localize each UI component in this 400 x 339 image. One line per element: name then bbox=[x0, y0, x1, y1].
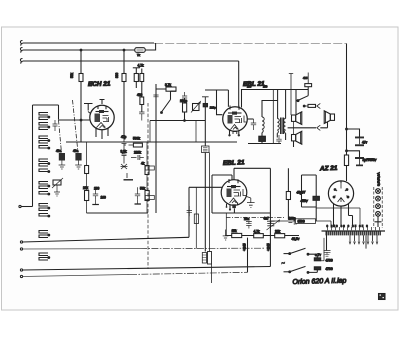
ground G9 bbox=[325, 252, 330, 256]
connector CN2 hatched bbox=[202, 253, 206, 264]
capacitor C2 pair bbox=[53, 120, 58, 131]
capacitor C17 bbox=[187, 206, 192, 216]
capacitor C11 bbox=[251, 119, 256, 130]
resistor R15 bbox=[344, 155, 348, 166]
wire caps mid to transformer bbox=[321, 238, 324, 261]
output transformer T1 core bbox=[281, 118, 284, 135]
mains switch SW3a bbox=[289, 253, 291, 255]
wire CN2 tail bbox=[211, 264, 213, 283]
svg-text:0 250 63 0 85 05 0: 0 250 63 0 85 05 0 bbox=[327, 224, 369, 228]
tube AZ21 envelope bbox=[328, 181, 353, 206]
wire R1 down to ECH21 region bbox=[80, 82, 82, 104]
speaker SP3 magnet bbox=[292, 135, 296, 141]
bottom terminal T4 bbox=[20, 275, 22, 277]
power transformer T2 winding comb bbox=[326, 232, 380, 236]
resistor 6500 box bbox=[296, 219, 316, 224]
gang trimmer blob 1 bbox=[59, 153, 65, 161]
wire R12 up bbox=[184, 98, 186, 121]
wire bottom bus B3 bbox=[23, 267, 271, 271]
wire drop to R1 bbox=[80, 50, 82, 74]
capacitor C9 bbox=[182, 92, 187, 98]
resistor R23 bbox=[275, 234, 285, 238]
coil L5a bbox=[39, 204, 48, 211]
wire x196b vertical bbox=[195, 187, 197, 248]
transformer left lead down bbox=[326, 231, 328, 251]
wire switch bottom to caps bbox=[308, 270, 317, 273]
wire x205 vertical bbox=[204, 121, 206, 252]
transformer long pins with arrows bbox=[349, 235, 378, 248]
svg-text:10n: 10n bbox=[244, 217, 250, 221]
svg-text:100p: 100p bbox=[180, 99, 187, 103]
capacitor C18 bbox=[246, 222, 252, 229]
svg-text:3,3k: 3,3k bbox=[121, 150, 127, 154]
wire bottom bus B4 (dash) bbox=[23, 275, 131, 277]
potentiometer wiper P1 bbox=[121, 159, 128, 170]
ground G1 bbox=[54, 185, 60, 196]
tube EBL21a pins bottom bbox=[230, 130, 239, 134]
electrolytic blob C12 bbox=[259, 136, 266, 141]
gang link dash left bbox=[59, 120, 62, 153]
wire arm to terminal bbox=[21, 206, 33, 208]
wire speaker column bbox=[289, 74, 293, 116]
svg-text:40µF/: 40µF/ bbox=[297, 191, 307, 195]
wire R19 vertical bbox=[287, 168, 289, 219]
gang trimmer blob 2 bbox=[75, 153, 81, 161]
resistor R11 (3,7k) bbox=[166, 87, 176, 91]
wire SP1-SP3 link bbox=[293, 121, 295, 134]
lamp rail dashed left bbox=[373, 187, 375, 228]
tube EBL21b envelope bbox=[221, 180, 247, 206]
coil L3b bbox=[39, 169, 48, 172]
wire +245 drop left bbox=[247, 238, 249, 273]
trimmer CT2 bbox=[193, 104, 200, 111]
svg-text:40a: 40a bbox=[73, 149, 79, 153]
resistor R7 bbox=[145, 191, 149, 201]
bottom terminal T1 bbox=[20, 241, 22, 243]
svg-text:250: 250 bbox=[263, 84, 268, 88]
tube EBL21a envelope bbox=[223, 107, 248, 132]
coil L2b bbox=[39, 146, 48, 149]
resistor R4 bbox=[133, 143, 142, 147]
resistor R20 bbox=[194, 214, 198, 224]
wire C1 to R3 bbox=[135, 68, 137, 88]
wire R14 up bbox=[307, 73, 309, 84]
wire SP3 down bbox=[293, 141, 295, 147]
svg-text:40a: 40a bbox=[56, 149, 62, 153]
capacitor C13 bbox=[276, 135, 281, 144]
mixer cap C3 bbox=[122, 139, 127, 147]
power transformer T2 bar bbox=[322, 230, 386, 232]
filter cap branch 2 bbox=[347, 151, 360, 157]
fuse F1 bbox=[135, 48, 145, 53]
junction dot x81 bbox=[80, 49, 82, 51]
mixer cap C4 bbox=[122, 147, 127, 159]
wire R11 left bbox=[156, 84, 166, 213]
wire bottom bus B1 bbox=[23, 237, 190, 242]
wire x184 junction bbox=[184, 120, 186, 122]
mains switch SW3b bbox=[289, 271, 291, 273]
shield box left bbox=[211, 175, 213, 213]
page mark glyph bbox=[379, 294, 386, 300]
wire fuse to L1 step bbox=[145, 43, 155, 50]
bottom terminal T2 bbox=[20, 248, 22, 250]
svg-text:495: 495 bbox=[303, 76, 308, 80]
svg-text:8µF/450v: 8µF/450v bbox=[363, 158, 377, 162]
tube EBL21a top bar bbox=[228, 112, 242, 114]
wire bus L1 continuation bbox=[154, 43, 347, 45]
svg-text:+245: +245 bbox=[242, 243, 246, 251]
svg-text:50k: 50k bbox=[70, 72, 74, 78]
wire switch top to caps bbox=[308, 254, 317, 258]
wire B+ drop from L1 bbox=[346, 44, 348, 130]
shield box top to grid bbox=[212, 175, 232, 180]
IF2 coil winding bbox=[262, 117, 264, 133]
svg-text:6,3V/0,3A: 6,3V/0,3A bbox=[376, 171, 380, 186]
wire x316 vertical bbox=[315, 175, 317, 221]
bottom terminal T3 bbox=[20, 269, 22, 271]
svg-text:22k: 22k bbox=[275, 229, 281, 233]
left coil bank bracket top bbox=[33, 104, 59, 106]
capacitor C16 plates bbox=[355, 157, 364, 159]
tube ECH21 top bar bbox=[96, 111, 109, 113]
padder trimmer CT1 bbox=[53, 180, 61, 185]
tube EBL21b filament bbox=[230, 198, 238, 203]
resistor R6 bbox=[145, 166, 149, 175]
speaker field rect bbox=[302, 175, 317, 207]
speaker SP3 cone bbox=[296, 131, 302, 144]
lamp LP3 bbox=[376, 204, 381, 209]
svg-text:Orion 620 A II.lap: Orion 620 A II.lap bbox=[292, 278, 346, 286]
capacitor C1 top plate bbox=[133, 67, 140, 69]
shield box bottom bbox=[212, 212, 270, 214]
capacitor C10 black bbox=[203, 104, 207, 107]
svg-text:160: 160 bbox=[101, 196, 107, 200]
svg-text:300: 300 bbox=[115, 72, 119, 78]
ground G2 bar bbox=[124, 179, 134, 181]
left coil bank vertical bbox=[32, 105, 34, 207]
ground bar under C5 bbox=[135, 203, 141, 205]
wire chain rail bbox=[226, 235, 300, 237]
speaker SP2 magnet bbox=[330, 114, 334, 120]
wire R15 to tube bbox=[346, 166, 348, 182]
resistor R8 bbox=[85, 191, 89, 201]
wire bus L2 bbox=[23, 49, 135, 51]
left coil bank right vertical bbox=[58, 105, 60, 120]
wire drop L3 to EBL21 grid bbox=[238, 61, 240, 107]
transformer tap ticks bbox=[328, 227, 380, 230]
capacitor C6 bbox=[93, 191, 98, 200]
wire diode pair line bbox=[209, 153, 211, 252]
antenna terminal 2 bbox=[20, 48, 22, 53]
capacitor C20 bbox=[288, 220, 299, 224]
jack arrow A2 bbox=[317, 125, 321, 130]
tube AZ21 plates bbox=[333, 183, 349, 202]
line cap CL2 bbox=[314, 267, 320, 270]
coil L4b bbox=[39, 192, 48, 195]
filter cap branch 1 bbox=[347, 129, 360, 137]
coil L2a bbox=[39, 136, 48, 143]
tube AZ21 pins down bbox=[334, 204, 353, 228]
tube EBL21b electrode blob bbox=[227, 189, 232, 198]
resistor R19 bbox=[286, 192, 290, 200]
wire x137 stub bbox=[137, 187, 139, 204]
tube EBL21a electrodes right bbox=[235, 116, 248, 124]
gang link dash mid bbox=[73, 100, 79, 153]
svg-text:450v: 450v bbox=[301, 199, 309, 203]
antenna terminal 3 bbox=[20, 59, 22, 64]
wire IF1 to tube pin bbox=[227, 90, 229, 107]
tube ECH21 envelope bbox=[90, 105, 114, 129]
lamp LP1 bbox=[376, 189, 381, 194]
capacitor C4b bbox=[131, 155, 144, 160]
svg-text:100p: 100p bbox=[289, 217, 296, 221]
svg-text:4700: 4700 bbox=[326, 267, 333, 271]
svg-text:AZ 21: AZ 21 bbox=[319, 165, 338, 173]
wire C10 down bbox=[204, 107, 206, 121]
svg-text:4,7k: 4,7k bbox=[254, 229, 260, 233]
tube ECH21 pins bottom bbox=[96, 128, 108, 139]
antenna coil Lb on bus bbox=[39, 253, 48, 260]
resistor R14 bbox=[305, 84, 312, 87]
wire x81 down to cathode bus bbox=[80, 103, 82, 142]
terminal lug bbox=[19, 205, 21, 207]
capacitor C19 tone bbox=[267, 221, 275, 228]
connector box J1 bbox=[308, 104, 316, 107]
resistor R10 bbox=[140, 97, 144, 105]
speaker SP2 cone bbox=[324, 111, 330, 124]
speaker SP1 magnet bbox=[292, 115, 296, 121]
coil L4a bbox=[39, 182, 48, 189]
wire small rail y187 bbox=[189, 186, 222, 188]
wire detector rail bbox=[248, 143, 281, 145]
resistor R9 bbox=[140, 74, 144, 82]
svg-text:50k: 50k bbox=[140, 187, 146, 191]
coil L3a bbox=[39, 159, 48, 166]
output transformer T1 left winding bbox=[277, 119, 279, 134]
connector small CN1 bbox=[202, 146, 210, 153]
tube ECH21 grid pin left bbox=[88, 112, 91, 114]
svg-text:4700: 4700 bbox=[326, 259, 333, 263]
svg-text:500k: 500k bbox=[133, 137, 140, 141]
coil L5b bbox=[39, 214, 48, 217]
wire 6500 rail bbox=[270, 221, 331, 228]
wire coil to blob bbox=[261, 133, 263, 137]
lamp tee bbox=[375, 216, 382, 227]
antenna coil La on bus bbox=[39, 231, 48, 238]
wire primary bottom bbox=[277, 133, 285, 140]
tube EBL21b top wire bbox=[234, 168, 270, 180]
wire R14 to switch bbox=[307, 87, 309, 96]
connector CN2 shell bbox=[208, 252, 212, 265]
wire osc x141 drop bbox=[141, 69, 143, 74]
line cap CL1 bbox=[314, 258, 320, 261]
resistor R12 bbox=[183, 103, 187, 112]
wire R9-R10 bbox=[141, 82, 143, 113]
tube EBL21a electrode blob bbox=[228, 115, 233, 124]
wire x196 stub bbox=[195, 121, 197, 143]
svg-text:20k: 20k bbox=[83, 186, 89, 190]
tube EBL21b pins bottom bbox=[227, 203, 238, 209]
wire bottom bus B2 (dash) bbox=[23, 248, 141, 250]
resistor R17 bbox=[145, 166, 154, 170]
antenna terminal 1 bbox=[20, 41, 22, 46]
svg-text:+245: +245 bbox=[266, 243, 270, 251]
oscillator switch SW1 bbox=[162, 91, 177, 112]
tube EBL21b electrodes right bbox=[234, 189, 247, 197]
wire x226 vertical bbox=[225, 213, 227, 236]
electrolytic C21 blob bbox=[313, 196, 319, 200]
svg-text:47v: 47v bbox=[362, 141, 368, 145]
capacitor C22 bbox=[324, 251, 331, 253]
lamp LP2 bbox=[376, 196, 381, 201]
ground G7 bbox=[247, 197, 255, 208]
output transformer T1 right winding bbox=[284, 119, 286, 134]
wire x189 vertical bbox=[188, 187, 190, 237]
wire R2 down mixer column bbox=[123, 82, 125, 140]
tube EBL21a filament bbox=[231, 125, 239, 130]
resistor R8a bbox=[85, 166, 89, 174]
resistor R2 bbox=[122, 74, 126, 82]
resistor R1 bbox=[79, 74, 83, 82]
wire coil top bbox=[262, 101, 278, 118]
AVC dashed line bbox=[147, 103, 149, 269]
wire B+ to primary bbox=[285, 90, 287, 119]
wire drop to R2 bbox=[123, 50, 125, 74]
coil L1a bbox=[39, 113, 48, 120]
resistor R3 body bbox=[134, 74, 138, 82]
svg-text:220p: 220p bbox=[210, 106, 216, 110]
wire bus L3 bbox=[23, 60, 239, 62]
wire osc bottom rail bbox=[87, 212, 149, 214]
svg-text:47p: 47p bbox=[121, 135, 127, 139]
svg-text:250: 250 bbox=[247, 84, 252, 88]
tone arrow bbox=[267, 220, 280, 230]
grid cap tee bbox=[84, 104, 93, 111]
wire primary top bbox=[277, 90, 279, 119]
svg-text:400: 400 bbox=[137, 93, 143, 97]
svg-text:15k: 15k bbox=[232, 229, 238, 233]
svg-text:3,7k: 3,7k bbox=[165, 83, 171, 87]
grid cap tee C10 bbox=[202, 97, 209, 104]
tube AZ21 top pin bbox=[340, 181, 342, 183]
wire B+ lower bbox=[346, 129, 348, 155]
lamp LP4 bbox=[376, 211, 381, 216]
capacitor C8 bbox=[153, 95, 158, 97]
wire grid to ECH21 bbox=[59, 119, 90, 121]
wire rect box to transformer bbox=[316, 208, 360, 227]
heater bracket bbox=[233, 132, 237, 135]
wire secondary to jack A2 bbox=[288, 127, 316, 129]
tube EBL21b top pins bbox=[229, 179, 238, 183]
capacitor C7 bbox=[139, 112, 144, 121]
chassis dash line bbox=[226, 217, 285, 219]
svg-text:4,7k: 4,7k bbox=[138, 64, 144, 68]
junction dot x124 bbox=[123, 49, 125, 51]
wire IF grid rail y120.5 bbox=[150, 120, 205, 122]
wire +245 vertical right bbox=[269, 168, 271, 266]
IF1 box top line bbox=[205, 89, 228, 91]
tube EBL21b top bar bbox=[227, 186, 241, 188]
wire IF tap bbox=[272, 90, 274, 144]
svg-text:4n7: 4n7 bbox=[264, 217, 270, 221]
wire anode rail EBL21a bbox=[242, 90, 309, 108]
ground G8 chain left bbox=[223, 230, 229, 241]
svg-text:220k: 220k bbox=[134, 151, 141, 155]
wire x150 stub bbox=[149, 121, 151, 143]
wire EBL21a anode right bbox=[248, 118, 254, 120]
speaker switch SW2 bbox=[298, 96, 308, 101]
resistor R18 bbox=[145, 196, 154, 200]
coil L1b bbox=[39, 123, 48, 130]
wire x86 stub bbox=[86, 142, 88, 213]
speaker SP1 cone bbox=[296, 112, 302, 125]
wire x95 stub bbox=[95, 187, 97, 205]
svg-text:EBL 21: EBL 21 bbox=[223, 159, 245, 167]
tube ECH21 filament bbox=[97, 123, 106, 129]
lamp rail dashed right bbox=[381, 187, 383, 228]
wire IF drop to EBL21 grid bbox=[217, 90, 223, 115]
svg-text:a 7v: a 7v bbox=[315, 253, 321, 257]
resistor R22 bbox=[254, 234, 264, 238]
svg-text:ECH 21: ECH 21 bbox=[88, 81, 111, 88]
wire jack A2 to SP2 bbox=[320, 122, 327, 128]
wire rail to SP1 bbox=[295, 90, 297, 116]
resistor R21 bbox=[232, 233, 242, 237]
svg-text:4k: 4k bbox=[141, 162, 145, 166]
tube ECH21 electrodes right bbox=[103, 116, 109, 123]
tube ECH21 top pins bbox=[98, 100, 106, 110]
wire x147 vertical bbox=[146, 142, 148, 213]
tube EBL21a top pins bbox=[230, 106, 239, 110]
tube ECH21 electrode blob bbox=[95, 114, 101, 123]
wire bottom bus y142 bbox=[66, 141, 237, 143]
svg-text:6500: 6500 bbox=[298, 220, 305, 224]
capacitor C5 bbox=[135, 191, 140, 200]
wire bus L1 bbox=[23, 42, 155, 44]
svg-text:100: 100 bbox=[94, 187, 100, 191]
wire blob down to rail bbox=[261, 141, 263, 143]
svg-text:42,5v: 42,5v bbox=[292, 237, 300, 241]
jack arrow A1 bbox=[317, 103, 321, 108]
